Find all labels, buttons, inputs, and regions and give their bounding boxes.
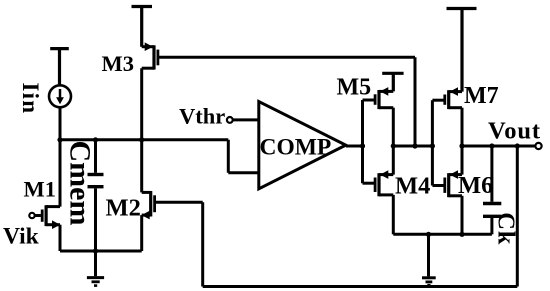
label M1 [24,176,57,201]
svg-text:M5: M5 [337,74,372,100]
svg-text:Vthr: Vthr [179,104,225,129]
node M6 source [459,232,464,237]
transistor M2 [141,191,202,251]
svg-text:M4: M4 [395,172,430,199]
supply VDD (above M5) [382,73,403,91]
node Cmem tap [93,137,98,142]
label Vthr [179,104,225,129]
svg-text:M6: M6 [458,172,493,199]
transistor M6 [432,146,462,234]
node M7/M6 drains [459,143,464,148]
wire rail to M1 drain [59,140,62,207]
node M7/M6 gates [430,143,435,148]
transistor M1 [29,205,60,251]
wire rail to comparator minus [228,140,258,173]
node feedback tap [515,143,520,148]
node ground tap left [93,248,98,253]
label Vout [488,118,541,145]
node ground tap right [426,232,431,237]
wire comparator output [346,145,363,148]
terminal Vout [535,143,541,149]
svg-text:M3: M3 [102,51,135,76]
transistor M7 [432,87,462,146]
supply VDD (above M7) [447,9,477,92]
svg-text:M7: M7 [464,83,499,109]
transistor M3 [142,42,158,139]
node M3 feedback join [412,143,417,148]
ground right [422,234,436,285]
label Iin [18,83,43,115]
node Iin/rail [57,137,62,142]
terminal Vthr [227,117,259,123]
wire rail to M2 drain [140,140,143,193]
wire M2 gate feedback (bottom) [203,146,518,287]
svg-text:M1: M1 [24,176,57,201]
svg-text:Iin: Iin [18,83,43,115]
svg-text:COMP: COMP [260,135,332,161]
svg-text:Vout: Vout [488,118,541,145]
wire M5/M4 gate line [361,100,364,183]
node comp out / gates M5 M4 [360,143,365,148]
label Cmem [64,141,97,226]
supply VDD (above M3) [132,7,153,47]
node M3/M2 junction [139,137,144,142]
wire bottom source wire [60,250,142,253]
wire M7/M6 gate line [431,100,434,185]
node Ck tap [489,143,494,148]
wire Vout rail [462,145,535,148]
label Ck [493,212,520,245]
svg-text:Vik: Vik [3,224,40,250]
svg-text:Cmem: Cmem [64,141,97,226]
capacitor Ck [483,146,501,234]
label COMP [260,135,332,161]
wire inverter1 out rail [393,145,432,148]
node M5/M4 drains [391,143,396,148]
svg-text:M2: M2 [106,194,141,221]
label M4 [395,172,430,199]
label M5 [337,74,372,100]
supply VDD (above Iin) [50,49,69,86]
wire M3 gate feedback [158,57,415,146]
wire source rail [393,233,492,236]
op-amp COMP [259,102,346,189]
wire memory rail [60,138,228,141]
capacitor Cmem [88,140,104,251]
transistor M4 [363,146,394,234]
svg-text:Ck: Ck [493,212,520,245]
ground left [87,251,104,286]
label Vik [3,224,40,250]
current source Iin [49,85,71,140]
label M7 [464,83,499,109]
label M2 [106,194,141,221]
transistor M5 [363,87,394,146]
label M3 [102,51,135,76]
label M6 [458,172,493,199]
